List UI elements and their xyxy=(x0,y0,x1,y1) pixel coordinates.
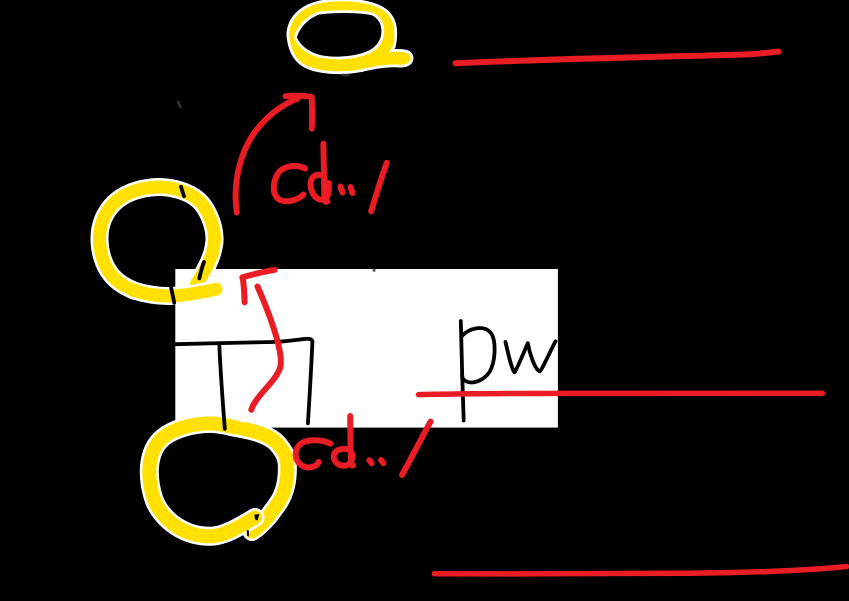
dash on middle circle top xyxy=(181,187,184,196)
dash on middle circle bottom xyxy=(171,288,174,303)
text cd2 letter c xyxy=(296,440,331,467)
letter p bowl xyxy=(462,328,495,382)
arrow 2 head down barb xyxy=(243,278,245,303)
arrow 1 curve xyxy=(236,99,298,213)
text cd1 dot 2 xyxy=(351,187,353,193)
arrow 1 head top barb xyxy=(286,96,312,97)
black notch in bottom circle end xyxy=(254,514,259,521)
text cd2 letter d stem xyxy=(350,416,353,466)
text cd2 letter d bowl xyxy=(334,449,353,466)
yellow highlight circle (bottom) main arc white halo xyxy=(149,423,255,536)
dash on middle circle hook xyxy=(199,262,204,278)
yellow highlight circle (bottom) right arc white halo xyxy=(231,427,287,532)
yellow junction patch bottom-left of middle circle xyxy=(130,289,164,296)
pi-figure horizontal bar xyxy=(176,339,312,344)
tiny dark nick on panel top edge xyxy=(372,269,375,272)
red strike line middle xyxy=(419,393,823,394)
arrow 2 head right barb xyxy=(242,270,274,278)
yellow highlight circle (middle-left) hook and ring xyxy=(100,187,215,291)
letter w xyxy=(506,341,556,372)
text cd1 letter d bowl xyxy=(311,175,329,200)
middle circle bottom arc xyxy=(133,289,216,296)
text cd2 slash xyxy=(402,422,431,475)
pi-figure left leg xyxy=(219,345,225,429)
yellow junction patch top of bottom circle xyxy=(226,426,254,431)
pi-figure right leg xyxy=(308,342,313,424)
white rectangle panel xyxy=(175,269,558,428)
faint dash above middle circle xyxy=(178,102,180,108)
arrow 2 curve xyxy=(251,287,281,410)
red annotations xyxy=(236,52,847,574)
text cd1 slash xyxy=(371,163,387,211)
text cd1 letter d stem xyxy=(323,144,327,202)
text cd2 dot 1 xyxy=(369,460,371,463)
faint dash under Q circle xyxy=(342,74,349,77)
text cd1 letter c xyxy=(274,166,305,201)
text cd1 dot 1 xyxy=(341,187,343,193)
yellow highlight circle (bottom) main arc xyxy=(149,423,255,536)
yellow highlight Q-circle (top) xyxy=(289,1,411,71)
red underline bottom-right xyxy=(435,567,847,574)
black pen marks xyxy=(171,187,555,429)
text cd2 dot 2 xyxy=(381,460,383,463)
yellow highlight Q-circle (top) white halo xyxy=(289,1,411,71)
letter p stem xyxy=(461,321,464,421)
arrow 1 head down barb xyxy=(309,97,315,128)
black sliver left of stub end xyxy=(247,530,249,537)
yellow highlight circle (bottom) right arc xyxy=(231,427,287,532)
red underline top-right xyxy=(456,52,779,64)
